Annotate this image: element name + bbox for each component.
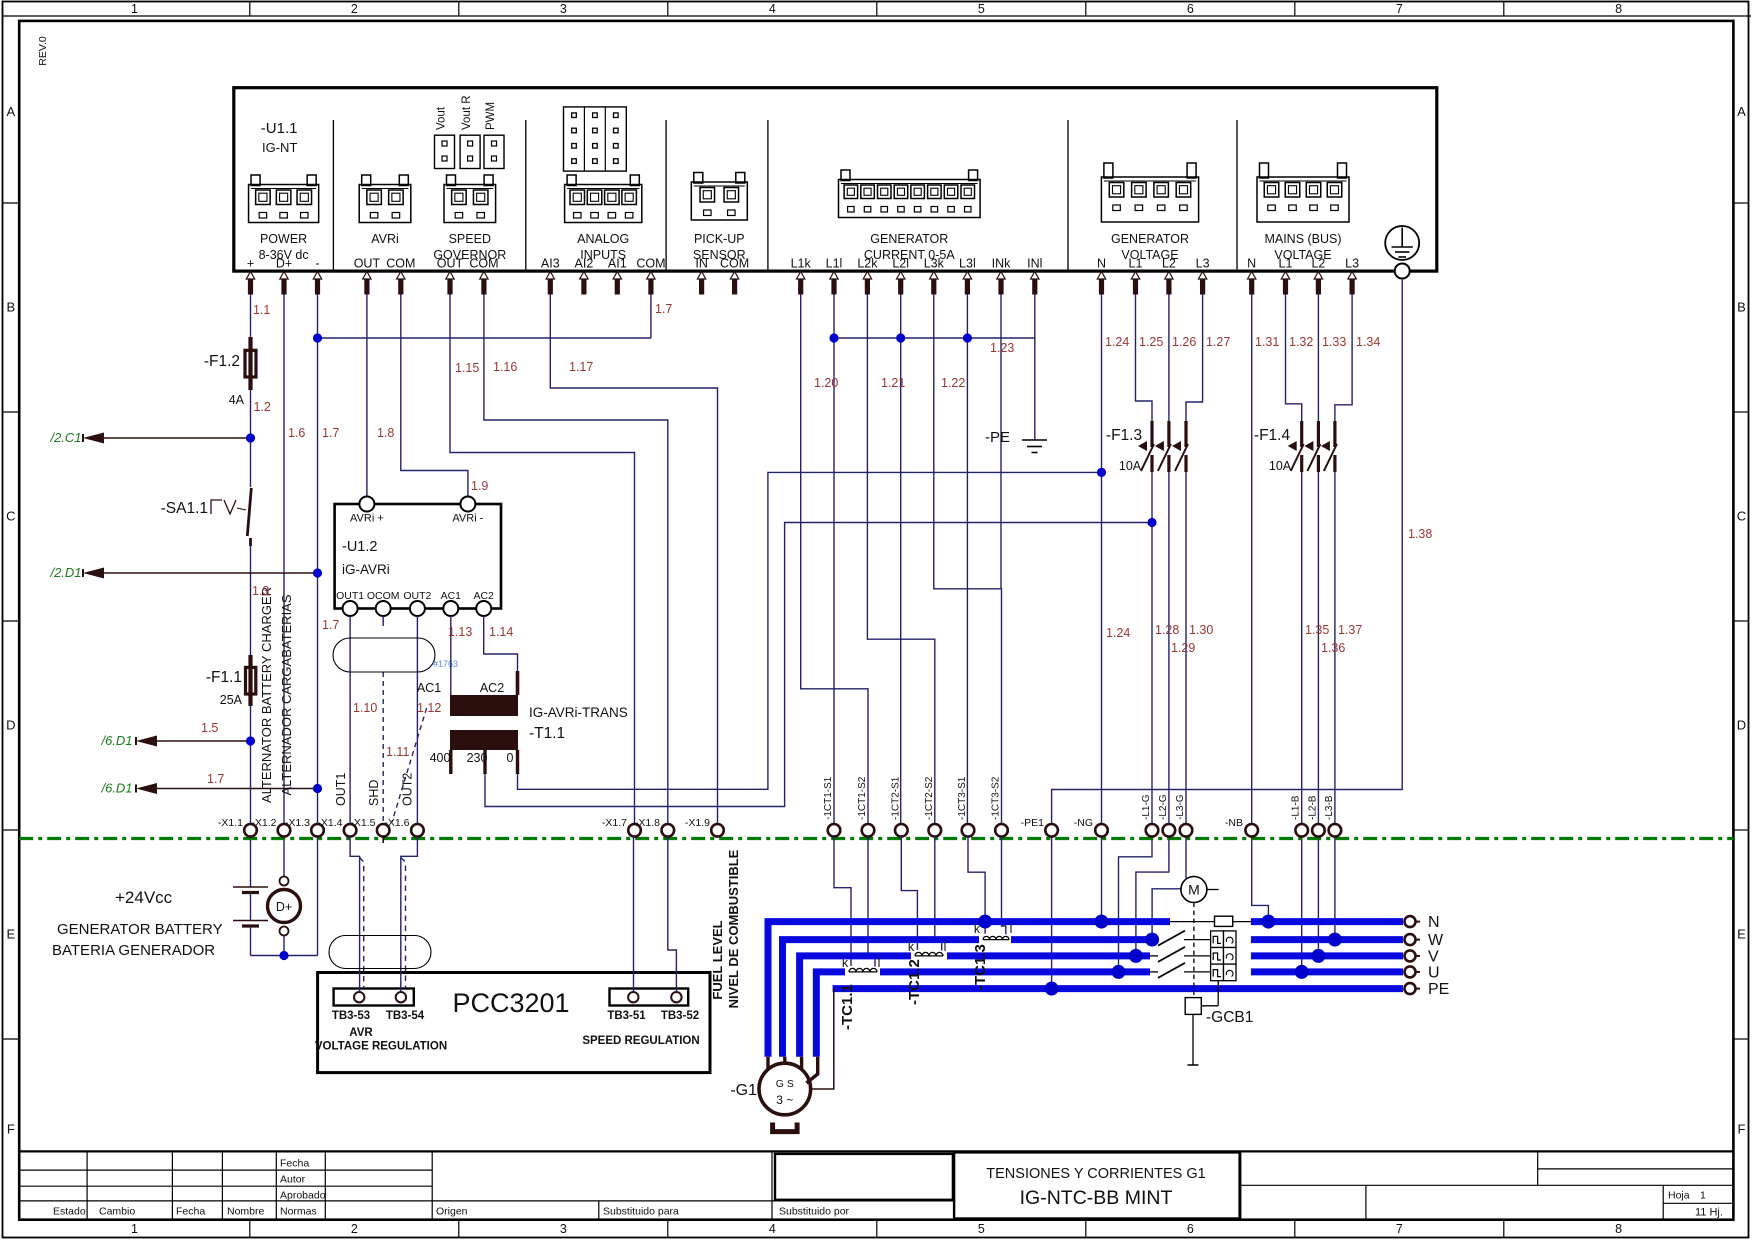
svg-text:GENERATOR BATTERY: GENERATOR BATTERY (57, 921, 223, 938)
svg-text:1.36: 1.36 (1321, 641, 1345, 655)
svg-text:D+: D+ (276, 900, 292, 914)
svg-text:M: M (1188, 882, 1200, 898)
svg-text:1.32: 1.32 (1289, 335, 1313, 349)
svg-text:1.12: 1.12 (417, 701, 441, 715)
svg-text:1.33: 1.33 (1322, 335, 1346, 349)
svg-text:l: l (944, 940, 947, 954)
svg-text:1: 1 (131, 1222, 138, 1236)
svg-text:2: 2 (351, 2, 358, 16)
svg-text:-X1.6: -X1.6 (384, 817, 409, 829)
svg-text:GENERATOR: GENERATOR (1111, 232, 1189, 246)
svg-text:COM: COM (469, 257, 498, 271)
svg-text:AC2: AC2 (480, 681, 504, 695)
svg-text:TB3-52: TB3-52 (661, 1010, 699, 1022)
svg-text:SHD: SHD (367, 780, 381, 806)
svg-text:-X1.9: -X1.9 (685, 817, 710, 829)
svg-text:COM: COM (386, 257, 415, 271)
svg-text:BATERIA GENERADOR: BATERIA GENERADOR (52, 942, 215, 959)
svg-text:AI3: AI3 (541, 257, 560, 271)
svg-text:L1l: L1l (826, 257, 843, 271)
svg-text:l: l (878, 956, 881, 970)
svg-text:Origen: Origen (436, 1206, 468, 1218)
svg-text:-X1.1: -X1.1 (218, 817, 243, 829)
svg-text:1.1: 1.1 (253, 303, 270, 317)
svg-text:Substituido por: Substituido por (779, 1206, 850, 1218)
svg-text:-L2-B: -L2-B (1307, 795, 1318, 820)
svg-text:B: B (6, 300, 15, 315)
svg-text:-GCB1: -GCB1 (1206, 1009, 1253, 1026)
svg-text:1.34: 1.34 (1356, 335, 1380, 349)
svg-text:1.8: 1.8 (377, 426, 394, 440)
svg-text:/6.D1: /6.D1 (100, 733, 132, 748)
svg-text:1.7: 1.7 (322, 426, 339, 440)
svg-text:SPEED: SPEED (449, 232, 491, 246)
svg-text:COM: COM (720, 257, 749, 271)
svg-text:-SA1.1: -SA1.1 (161, 500, 208, 517)
svg-text:IG-NTC-BB MINT: IG-NTC-BB MINT (1020, 1187, 1173, 1209)
svg-text:1.21: 1.21 (881, 376, 905, 390)
svg-text:Autor: Autor (280, 1174, 306, 1186)
svg-text:1.3: 1.3 (252, 584, 269, 598)
svg-text:7: 7 (1396, 1222, 1403, 1236)
svg-text:/2.D1: /2.D1 (49, 565, 81, 580)
svg-text:PE: PE (1428, 981, 1449, 998)
svg-text:E: E (6, 927, 15, 942)
svg-text:1.15: 1.15 (455, 361, 479, 375)
svg-text:k: k (908, 940, 915, 954)
svg-text:-F1.3: -F1.3 (1106, 427, 1142, 444)
svg-text:L3l: L3l (959, 257, 976, 271)
svg-text:L3: L3 (1345, 257, 1359, 271)
svg-text:10A: 10A (1269, 459, 1292, 473)
svg-text:5: 5 (978, 1222, 985, 1236)
svg-text:W: W (1428, 932, 1444, 949)
svg-text:-1CT3-S1: -1CT3-S1 (957, 776, 968, 820)
svg-text:4A: 4A (229, 393, 245, 407)
svg-text:AVR: AVR (349, 1027, 373, 1039)
svg-text:Cambio: Cambio (99, 1206, 135, 1218)
svg-text:N: N (1428, 914, 1440, 931)
svg-text:Aprobado: Aprobado (280, 1190, 326, 1202)
svg-text:AVRi +: AVRi + (350, 513, 384, 525)
svg-text:1.7: 1.7 (207, 772, 224, 786)
svg-text:-U1.2: -U1.2 (342, 539, 377, 555)
svg-text:-L3-B: -L3-B (1324, 795, 1335, 820)
svg-text:E: E (1737, 927, 1746, 942)
svg-text:-TC1.3: -TC1.3 (972, 944, 989, 990)
svg-text:POWER: POWER (260, 232, 307, 246)
svg-text:Nombre: Nombre (227, 1206, 265, 1218)
svg-text:PWM: PWM (485, 102, 497, 130)
svg-text:Vout R: Vout R (461, 95, 473, 130)
svg-text:TB3-54: TB3-54 (386, 1010, 425, 1022)
svg-text:ALTERNADOR CARGABATERIAS: ALTERNADOR CARGABATERIAS (279, 594, 294, 795)
svg-text:IG-NT: IG-NT (262, 140, 297, 155)
svg-text:-NG: -NG (1074, 817, 1093, 829)
svg-text:VOLTAGE REGULATION: VOLTAGE REGULATION (315, 1041, 447, 1053)
svg-text:1.14: 1.14 (489, 625, 513, 639)
svg-text:AI1: AI1 (608, 257, 627, 271)
svg-text:-X1.4: -X1.4 (317, 817, 342, 829)
svg-text:A: A (6, 104, 15, 119)
svg-text:1.22: 1.22 (941, 376, 965, 390)
svg-text:-L1-B: -L1-B (1291, 795, 1302, 820)
svg-text:U: U (1428, 964, 1440, 981)
svg-text:OUT1: OUT1 (336, 590, 364, 602)
svg-text:1.37: 1.37 (1338, 623, 1362, 637)
svg-text:PCC3201: PCC3201 (452, 988, 569, 1018)
svg-text:AI2: AI2 (575, 257, 594, 271)
svg-text:AVRi: AVRi (371, 232, 399, 246)
svg-text:TB3-53: TB3-53 (332, 1010, 370, 1022)
svg-text:N: N (1097, 257, 1106, 271)
svg-text:1.38: 1.38 (1408, 527, 1432, 541)
svg-text:1.13: 1.13 (448, 625, 472, 639)
svg-text:NIVEL DE COMBUSTIBLE: NIVEL DE COMBUSTIBLE (726, 849, 741, 1008)
svg-text:G S: G S (776, 1078, 794, 1090)
svg-text:MAINS (BUS): MAINS (BUS) (1264, 232, 1341, 246)
svg-text:+24Vcc: +24Vcc (115, 888, 173, 907)
svg-text:-1CT1-S2: -1CT1-S2 (857, 776, 868, 820)
svg-text:l: l (1010, 922, 1013, 936)
svg-text:1.30: 1.30 (1189, 623, 1213, 637)
svg-text:1.17: 1.17 (569, 360, 593, 374)
svg-text:1.28: 1.28 (1155, 623, 1179, 637)
svg-text:-U1.1: -U1.1 (261, 120, 298, 137)
svg-text:1.31: 1.31 (1255, 335, 1279, 349)
svg-text:L1k: L1k (791, 257, 812, 271)
svg-text:-X1.3: -X1.3 (285, 817, 310, 829)
svg-text:L2l: L2l (892, 257, 909, 271)
svg-text:3: 3 (560, 1222, 567, 1236)
svg-text:1.26: 1.26 (1172, 335, 1196, 349)
svg-text:0: 0 (507, 751, 514, 765)
svg-text:iG-AVRi: iG-AVRi (342, 562, 390, 577)
svg-text:ANALOG: ANALOG (577, 232, 629, 246)
svg-text:L3k: L3k (924, 257, 945, 271)
svg-text:A: A (1737, 104, 1746, 119)
svg-text:3: 3 (560, 2, 567, 16)
svg-text:D: D (1737, 718, 1746, 733)
svg-text:ALTERNATOR BATTERY CHARGER: ALTERNATOR BATTERY CHARGER (259, 587, 274, 803)
svg-text:GENERATOR: GENERATOR (870, 232, 948, 246)
svg-text:L3: L3 (1196, 257, 1210, 271)
svg-text:COM: COM (636, 257, 665, 271)
svg-text:Hoja: Hoja (1668, 1190, 1690, 1202)
svg-text:-TC1.2: -TC1.2 (906, 959, 923, 1005)
svg-text:1.27: 1.27 (1206, 335, 1230, 349)
svg-text:AVRi -: AVRi - (452, 513, 483, 525)
svg-text:1.5: 1.5 (201, 721, 218, 735)
svg-text:-F1.2: -F1.2 (204, 353, 240, 370)
svg-text:L2: L2 (1162, 257, 1176, 271)
svg-text:11 Hj.: 11 Hj. (1695, 1207, 1723, 1219)
svg-text:2: 2 (351, 1222, 358, 1236)
svg-text:-G1: -G1 (730, 1082, 757, 1099)
svg-text:-TC1.1: -TC1.1 (839, 984, 856, 1030)
svg-text:C: C (6, 509, 15, 524)
svg-text:AC1: AC1 (441, 590, 462, 602)
svg-text:k: k (842, 956, 849, 970)
svg-text:6: 6 (1187, 1222, 1194, 1236)
svg-text:1.11: 1.11 (386, 745, 409, 759)
svg-text:4: 4 (769, 1222, 776, 1236)
svg-text:230: 230 (467, 751, 488, 765)
svg-text:-X1.8: -X1.8 (635, 817, 660, 829)
svg-text:-L3-G: -L3-G (1175, 794, 1186, 820)
svg-text:OUT: OUT (354, 257, 381, 271)
svg-text:F: F (1738, 1121, 1746, 1136)
svg-text:Fecha: Fecha (176, 1206, 205, 1218)
svg-text:1.23: 1.23 (990, 341, 1014, 355)
svg-text:1.24: 1.24 (1105, 335, 1129, 349)
svg-text:25A: 25A (220, 693, 243, 707)
svg-text:-X1.5: -X1.5 (350, 817, 375, 829)
svg-text:-1CT3-S2: -1CT3-S2 (991, 776, 1002, 820)
svg-text:L1: L1 (1129, 257, 1143, 271)
svg-text:3 ~: 3 ~ (776, 1093, 793, 1107)
svg-text:4: 4 (769, 2, 776, 16)
svg-text:Vout: Vout (436, 106, 448, 130)
svg-text:1.35: 1.35 (1305, 623, 1329, 637)
svg-text:1.9: 1.9 (471, 479, 488, 493)
svg-text:F: F (7, 1121, 15, 1136)
svg-text:TB3-51: TB3-51 (607, 1010, 646, 1022)
svg-text:C: C (1737, 509, 1746, 524)
svg-text:Estado: Estado (53, 1206, 86, 1218)
svg-text:1: 1 (1700, 1190, 1706, 1202)
svg-text:/6.D1: /6.D1 (100, 781, 132, 796)
svg-text:1.24: 1.24 (1106, 626, 1130, 640)
svg-text:/2.C1: /2.C1 (49, 430, 81, 445)
svg-text:INk: INk (992, 257, 1012, 271)
svg-text:REV.0: REV.0 (37, 36, 49, 66)
svg-text:TENSIONES Y CORRIENTES G1: TENSIONES Y CORRIENTES G1 (986, 1166, 1205, 1182)
svg-text:L2k: L2k (857, 257, 878, 271)
svg-text:L2: L2 (1311, 257, 1325, 271)
svg-text:5: 5 (978, 2, 985, 16)
svg-text:N: N (1247, 257, 1256, 271)
svg-text:V: V (1428, 948, 1439, 965)
svg-text:B: B (1737, 300, 1746, 315)
svg-text:FUEL LEVEL: FUEL LEVEL (710, 920, 725, 999)
svg-text:8: 8 (1615, 1222, 1622, 1236)
svg-text:OCOM: OCOM (367, 590, 400, 602)
svg-text:10A: 10A (1119, 459, 1142, 473)
svg-text:Substituido para: Substituido para (603, 1206, 679, 1218)
svg-text:8: 8 (1615, 2, 1622, 16)
svg-text:-PE: -PE (985, 429, 1010, 446)
svg-text:SPEED REGULATION: SPEED REGULATION (582, 1035, 699, 1047)
svg-text:1.29: 1.29 (1171, 641, 1195, 655)
svg-text:1.10: 1.10 (353, 701, 377, 715)
svg-text:#1763: #1763 (433, 659, 458, 669)
svg-text:L1: L1 (1279, 257, 1293, 271)
svg-text:OUT: OUT (437, 257, 464, 271)
svg-text:PICK-UP: PICK-UP (694, 232, 745, 246)
svg-text:-F1.1: -F1.1 (206, 669, 242, 686)
svg-text:-NB: -NB (1225, 817, 1243, 829)
svg-text:-1CT1-S1: -1CT1-S1 (823, 776, 834, 820)
svg-text:-L1-G: -L1-G (1141, 794, 1152, 820)
svg-text:-L2-G: -L2-G (1158, 794, 1169, 820)
svg-text:-1CT2-S2: -1CT2-S2 (924, 776, 935, 820)
svg-text:6: 6 (1187, 2, 1194, 16)
svg-text:D: D (6, 718, 15, 733)
svg-text:1.2: 1.2 (254, 400, 271, 414)
svg-text:1.6: 1.6 (288, 426, 305, 440)
svg-text:+: + (247, 257, 254, 271)
svg-text:-X1.7: -X1.7 (602, 817, 627, 829)
svg-text:IN: IN (695, 257, 708, 271)
svg-text:OUT2: OUT2 (403, 590, 431, 602)
svg-text:IG-AVRi-TRANS: IG-AVRi-TRANS (529, 705, 628, 720)
svg-text:OUT2: OUT2 (401, 773, 415, 806)
svg-text:1.7: 1.7 (655, 302, 672, 316)
svg-text:1.20: 1.20 (814, 376, 838, 390)
svg-text:1.25: 1.25 (1139, 335, 1163, 349)
svg-text:-: - (315, 257, 319, 271)
svg-text:1.7: 1.7 (322, 618, 339, 632)
svg-text:7: 7 (1396, 2, 1403, 16)
svg-text:-T1.1: -T1.1 (529, 725, 565, 742)
svg-text:INl: INl (1027, 257, 1042, 271)
svg-text:400: 400 (430, 751, 451, 765)
svg-text:AC2: AC2 (473, 590, 494, 602)
svg-text:-PE1: -PE1 (1021, 817, 1045, 829)
svg-text:-F1.4: -F1.4 (1254, 427, 1291, 444)
svg-text:Fecha: Fecha (280, 1158, 309, 1170)
svg-text:Normas: Normas (280, 1206, 317, 1218)
svg-text:-1CT2-S1: -1CT2-S1 (890, 776, 901, 820)
svg-text:AC1: AC1 (417, 681, 441, 695)
svg-text:D+: D+ (276, 257, 292, 271)
svg-text:-X1.2: -X1.2 (251, 817, 276, 829)
svg-text:OUT1: OUT1 (334, 773, 348, 806)
svg-text:1.16: 1.16 (493, 360, 517, 374)
svg-text:1: 1 (131, 2, 138, 16)
